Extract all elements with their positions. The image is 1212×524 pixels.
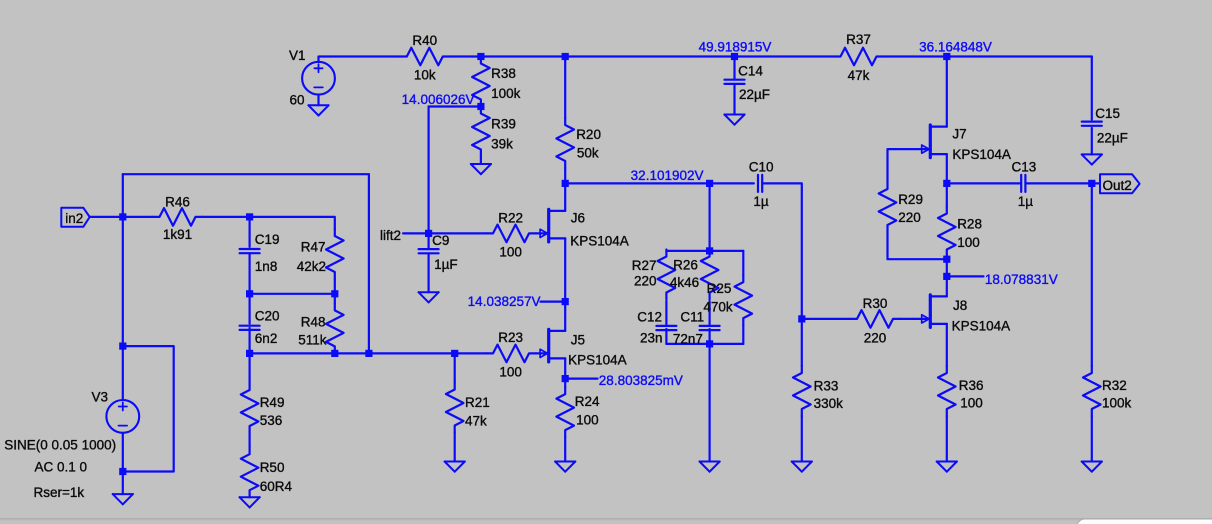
wire R24 top lead <box>564 379 566 388</box>
svg-text:R46: R46 <box>165 195 190 210</box>
svg-text:R36: R36 <box>959 378 984 393</box>
capacitor C13 <box>1021 175 1025 192</box>
wire mid rail 32.1V <box>565 182 754 184</box>
svg-text:100k: 100k <box>491 86 521 101</box>
wire R21 top lead <box>454 353 456 382</box>
wire R32 to ground <box>1091 416 1093 462</box>
svg-text:42k2: 42k2 <box>297 259 326 274</box>
wire cluster bottom rail <box>666 343 743 345</box>
svg-text:4k46: 4k46 <box>670 275 699 290</box>
voltage source V1 <box>302 62 335 95</box>
ground (V1) <box>308 105 328 115</box>
svg-text:R21: R21 <box>465 395 490 410</box>
svg-text:220: 220 <box>864 331 887 346</box>
resistor R48 <box>326 303 344 353</box>
wire C19 node to R47 corner <box>250 217 335 229</box>
svg-text:Out2: Out2 <box>1103 178 1132 193</box>
wire R28 bottom lead <box>946 257 948 277</box>
svg-text:R49: R49 <box>260 395 285 410</box>
svg-text:28.803825mV: 28.803825mV <box>599 373 683 388</box>
wire V+ top rail (R40 to R37) <box>450 55 834 57</box>
wire R20 bottom lead <box>564 168 566 183</box>
svg-text:72n7: 72n7 <box>673 332 703 347</box>
svg-text:KPS104A: KPS104A <box>568 353 627 368</box>
svg-text:lift2: lift2 <box>380 228 401 243</box>
wire R30 to J8 gate <box>900 318 914 320</box>
svg-text:100: 100 <box>499 365 522 380</box>
resistor R47 <box>326 229 344 279</box>
window bottom edge shadow line <box>0 518 1212 520</box>
ground (R39) <box>471 164 491 174</box>
ground (R24) <box>555 462 575 472</box>
svg-text:220: 220 <box>898 210 921 225</box>
JFET J7 <box>922 125 947 158</box>
wire V3 top lead <box>122 346 124 400</box>
junction J5 source / R24 (28.8mV node) <box>562 375 569 382</box>
resistor R36 <box>938 366 956 416</box>
net port flag in2 <box>61 208 89 227</box>
wire left vertical (top wire to V3) <box>122 174 124 346</box>
svg-text:KPS104A: KPS104A <box>570 234 629 249</box>
svg-text:KPS104A: KPS104A <box>952 147 1011 162</box>
wire cluster top rail <box>666 250 743 252</box>
resistor R33 <box>793 366 811 416</box>
svg-text:49.918915V: 49.918915V <box>699 40 772 55</box>
svg-text:1k91: 1k91 <box>163 227 192 242</box>
svg-text:32.101902V: 32.101902V <box>631 168 704 183</box>
svg-text:in2: in2 <box>65 211 83 226</box>
wire top loop horizontal <box>123 173 369 175</box>
junction cluster bottom <box>706 340 713 347</box>
wire C20 bottom lead <box>249 328 251 354</box>
ground (R21) <box>445 462 465 472</box>
junction loop vertical / lower rail <box>365 350 372 357</box>
wire J6 source to J5 drain <box>564 238 566 331</box>
wire C15 branch down <box>1091 57 1093 120</box>
wire V1 bottom to ground <box>317 95 319 106</box>
ground (R36) <box>937 462 957 472</box>
junction J7 source / out row / R28 <box>943 180 950 187</box>
resistor R49 <box>241 383 259 433</box>
svg-text:KPS104A: KPS104A <box>952 318 1011 333</box>
resistor R21 <box>446 383 464 433</box>
wire J7 drain lead <box>946 57 948 127</box>
junction J6 source / J5 drain (14.038257V) <box>562 298 569 305</box>
wire right loop vertical <box>368 174 370 353</box>
wire C13 to Out2 node <box>1026 182 1092 184</box>
wire V3 bottom lead <box>122 433 124 494</box>
wire R36 to ground <box>946 416 948 462</box>
capacitor C19 <box>240 249 260 253</box>
wire R21 to ground <box>454 433 456 462</box>
junction mid rail / cluster feed <box>706 180 713 187</box>
svg-text:C19: C19 <box>255 232 280 247</box>
svg-text:R28: R28 <box>957 217 982 232</box>
wire R49 top lead <box>249 353 251 383</box>
resistor R20 <box>556 118 574 168</box>
svg-text:C10: C10 <box>749 160 774 175</box>
junction V3 top / bypass <box>119 343 126 350</box>
wire R49-R50 link <box>249 433 251 447</box>
svg-text:1µ: 1µ <box>753 194 769 209</box>
wire R46 to C19 node <box>203 216 250 218</box>
junction J8 drain (18.07V node) <box>943 273 950 280</box>
capacitor C15 <box>1082 122 1102 126</box>
svg-text:C14: C14 <box>738 64 763 79</box>
wire R33 to ground <box>801 416 803 462</box>
svg-text:1n8: 1n8 <box>255 259 278 274</box>
svg-text:39k: 39k <box>491 137 513 152</box>
svg-text:14.006026V: 14.006026V <box>402 92 475 107</box>
wire lift2 vertical <box>428 107 430 234</box>
wire R25 top lead <box>742 251 744 275</box>
capacitor C20 <box>240 326 260 330</box>
junction V3 bottom / bypass <box>119 468 126 475</box>
svg-text:50k: 50k <box>577 146 599 161</box>
svg-text:330k: 330k <box>814 396 844 411</box>
wire R23 to J5 gate <box>536 352 549 354</box>
junction top rail / J7 drain (36.1V node) <box>943 53 950 60</box>
svg-text:14.038257V: 14.038257V <box>468 294 541 309</box>
wire R24 to ground <box>564 437 566 461</box>
wire J6 drain lead <box>564 183 566 211</box>
wire R39 to ground <box>480 157 482 165</box>
capacitor C14 <box>725 80 745 84</box>
wire C12 to bottom rail <box>665 329 667 344</box>
svg-text:60R4: 60R4 <box>260 479 293 494</box>
wire node to R30 <box>802 318 850 320</box>
resistor R50 <box>241 447 259 497</box>
wire R20 top lead <box>564 57 566 119</box>
wire R48 top lead <box>334 294 336 304</box>
resistor R40 <box>400 48 450 66</box>
svg-text:SINE(0 0.05 1000): SINE(0 0.05 1000) <box>4 438 116 453</box>
wire J7 source to out node <box>946 154 948 183</box>
svg-text:J5: J5 <box>571 333 585 348</box>
svg-text:23n: 23n <box>640 331 663 346</box>
junction C20 / lower rail <box>246 350 253 357</box>
resistor R32 <box>1083 366 1101 416</box>
svg-text:C15: C15 <box>1095 106 1120 121</box>
wire J5 source to 28.8mV node <box>564 358 566 378</box>
wire Out2 node to R32 <box>1091 183 1093 366</box>
svg-text:511k: 511k <box>298 333 327 348</box>
wire R22 to J6 gate <box>536 232 549 234</box>
svg-text:R37: R37 <box>846 32 871 47</box>
svg-text:1µF: 1µF <box>434 257 458 272</box>
junction R48 / lower rail <box>331 350 338 357</box>
junction cluster top <box>706 247 713 254</box>
wire C15 to its ground <box>1091 128 1093 154</box>
svg-text:R50: R50 <box>260 460 285 475</box>
JFET J5 <box>540 329 565 362</box>
svg-text:36.164848V: 36.164848V <box>919 39 992 54</box>
capacitor C10 <box>758 175 762 192</box>
svg-text:6n2: 6n2 <box>255 331 278 346</box>
svg-text:R23: R23 <box>498 330 523 345</box>
svg-text:100: 100 <box>957 235 980 250</box>
wire 14V node to R38/R39 junction <box>429 105 481 107</box>
wire mid rail C19-R48 <box>250 293 335 295</box>
junction in2 line / left vertical <box>119 213 126 220</box>
svg-text:220: 220 <box>634 274 657 289</box>
svg-text:C9: C9 <box>432 233 449 248</box>
wire R28 top lead <box>946 183 948 206</box>
JFET J8 <box>914 295 947 328</box>
svg-text:R38: R38 <box>491 66 516 81</box>
svg-text:R39: R39 <box>491 117 516 132</box>
resistor R26 <box>701 250 719 300</box>
wire J8 drain lead <box>946 276 948 296</box>
wire C9 top lead <box>428 233 430 248</box>
ground (C15) <box>1082 154 1102 164</box>
svg-text:18.078831V: 18.078831V <box>985 272 1058 287</box>
junction top rail / R38 <box>477 53 484 60</box>
junction Out2 / R32 <box>1088 180 1095 187</box>
wire C10 right lead <box>762 183 802 319</box>
svg-text:R27: R27 <box>632 258 657 273</box>
svg-text:100k: 100k <box>1102 396 1132 411</box>
junction C19/C20 <box>246 290 253 297</box>
svg-text:C20: C20 <box>255 309 280 324</box>
resistor R22 <box>486 225 536 243</box>
svg-text:470k: 470k <box>703 300 733 315</box>
capacitor C11 <box>700 326 720 330</box>
wire R33 top lead <box>801 319 803 366</box>
wire R26 to C11 <box>708 301 710 325</box>
wire J8 source lead <box>946 324 948 366</box>
svg-text:R32: R32 <box>1102 378 1127 393</box>
svg-text:22µF: 22µF <box>1097 131 1128 146</box>
resistor R46 <box>153 208 203 226</box>
ground (C14) <box>724 115 744 125</box>
svg-text:R29: R29 <box>898 192 923 207</box>
svg-text:R20: R20 <box>576 127 601 142</box>
voltage source V3 <box>106 400 139 433</box>
wire cluster feed vertical <box>708 183 710 251</box>
ground (R32) <box>1082 462 1102 472</box>
svg-text:R24: R24 <box>575 394 600 409</box>
wire R29 bottom loop <box>888 232 947 259</box>
resistor R23 <box>486 345 536 363</box>
svg-text:536: 536 <box>260 413 283 428</box>
wire cluster to ground <box>708 344 710 462</box>
svg-text:R26: R26 <box>673 258 698 273</box>
svg-text:47k: 47k <box>465 414 487 429</box>
ground (R33) <box>792 462 812 472</box>
wire V+ top rail left (V1 to R40) <box>319 57 400 62</box>
junction R30 / R33 <box>798 315 805 322</box>
wire V3 bypass branch <box>123 346 174 471</box>
svg-text:R47: R47 <box>301 240 326 255</box>
wire C14 to ground <box>733 84 735 115</box>
wire out row to C13 <box>947 182 1020 184</box>
svg-text:R22: R22 <box>498 210 523 225</box>
resistor R30 <box>850 310 900 328</box>
junction R20/J6 drain/mid rail <box>562 180 569 187</box>
capacitor C9 <box>419 249 439 253</box>
junction R38/R39 (14.006026V node) <box>477 103 484 110</box>
capacitor C12 <box>656 326 676 330</box>
ground (cluster) <box>700 462 720 472</box>
svg-text:J6: J6 <box>571 211 585 226</box>
svg-text:C11: C11 <box>680 310 704 325</box>
wire Out2 node stub <box>1092 182 1100 184</box>
svg-text:100: 100 <box>499 245 522 260</box>
svg-text:R40: R40 <box>412 33 437 48</box>
wire R25 bottom lead <box>742 325 744 344</box>
svg-text:R48: R48 <box>301 315 326 330</box>
junction R47/R48 <box>331 290 338 297</box>
resistor R25 <box>735 275 753 325</box>
wire 18.07V label stub <box>947 275 984 277</box>
resistor R38 <box>472 57 490 107</box>
wire R47 bottom to rail <box>334 279 336 294</box>
wire C9 to ground <box>428 253 430 292</box>
svg-text:60: 60 <box>290 93 305 108</box>
junction R21 / lower rail <box>451 350 458 357</box>
svg-text:V1: V1 <box>289 48 306 63</box>
ground (R50) <box>240 497 260 507</box>
svg-text:C12: C12 <box>637 310 662 325</box>
wire 14.038V label stub <box>541 301 566 303</box>
junction lift2/C9/R22 <box>425 230 432 237</box>
resistor R27 <box>658 250 676 300</box>
wire in2 to R46 <box>90 216 153 218</box>
wire J7 gate loop <box>888 149 931 182</box>
resistor R29 <box>879 182 897 232</box>
wire C20 top lead <box>249 294 251 324</box>
junction R28/R29 bottom <box>943 256 950 263</box>
wire V+ top rail (R37 to C15 corner) <box>884 55 1092 57</box>
resistor R37 <box>834 48 884 66</box>
junction R46/C19/R47 <box>246 213 253 220</box>
svg-text:C13: C13 <box>1012 160 1037 175</box>
resistor R28 <box>938 207 956 257</box>
svg-text:100: 100 <box>576 413 599 428</box>
ground (V3) <box>113 494 133 504</box>
wire R27 to C12 <box>665 301 667 325</box>
svg-text:V3: V3 <box>92 390 109 405</box>
svg-text:22µF: 22µF <box>739 87 770 102</box>
wire C14 top lead <box>733 57 735 79</box>
wire lower rail C20 to J5 gate <box>250 352 486 354</box>
net port flag Out2 <box>1100 174 1140 193</box>
junction top rail / R20 <box>562 53 569 60</box>
svg-text:J8: J8 <box>953 298 967 313</box>
JFET J6 <box>540 209 565 242</box>
svg-text:J7: J7 <box>952 127 966 142</box>
svg-text:100: 100 <box>960 395 983 410</box>
wire 28.8mV label stub <box>565 378 597 380</box>
junction top rail / C14 (49.9V node) <box>731 53 738 60</box>
wire C11 to bottom rail <box>708 329 710 344</box>
svg-text:47k: 47k <box>848 68 870 83</box>
resistor R39 <box>472 107 490 157</box>
svg-text:1µ: 1µ <box>1018 194 1034 209</box>
wire C19 lead top <box>249 217 251 247</box>
svg-text:R25: R25 <box>707 281 732 296</box>
wire lift2 label stub <box>403 232 429 234</box>
scrollbar thumb bottom right <box>1077 519 1212 524</box>
ground (C9) <box>419 292 439 302</box>
svg-text:10k: 10k <box>414 67 436 82</box>
svg-text:Rser=1k: Rser=1k <box>33 485 84 500</box>
resistor R24 <box>556 387 574 437</box>
wire C19 bottom to rail <box>249 253 251 294</box>
svg-text:R30: R30 <box>863 296 888 311</box>
svg-text:R33: R33 <box>814 379 839 394</box>
wire lift2 node to R22 <box>429 232 486 234</box>
svg-text:AC 0.1 0: AC 0.1 0 <box>35 460 88 475</box>
